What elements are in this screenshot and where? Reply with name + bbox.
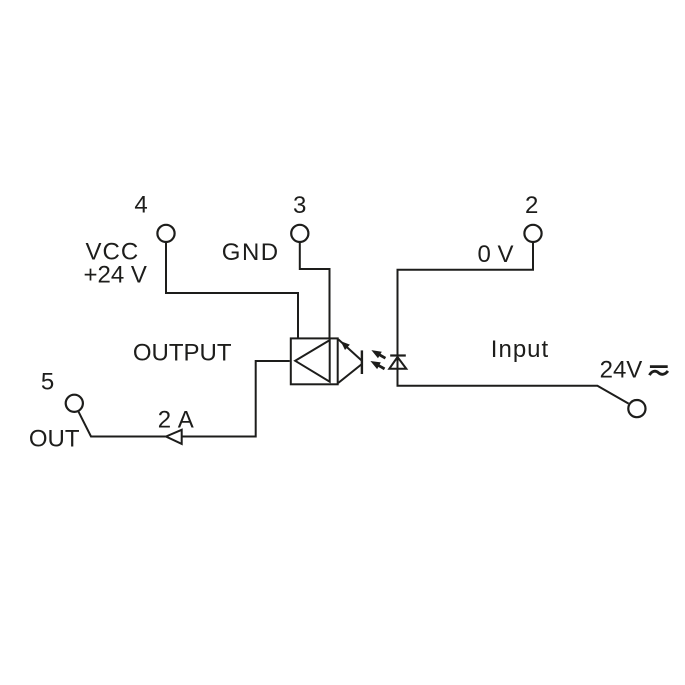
svg-text:OUTPUT: OUTPUT [133, 339, 232, 366]
svg-text:4: 4 [134, 192, 147, 219]
svg-text:2 A: 2 A [158, 407, 195, 434]
svg-text:+24 V: +24 V [84, 262, 147, 289]
svg-text:GND: GND [222, 239, 280, 266]
svg-text:0 V: 0 V [478, 241, 514, 268]
svg-text:Input: Input [491, 336, 549, 363]
svg-text:OUT: OUT [29, 425, 80, 452]
svg-text:24V: 24V [600, 357, 643, 384]
svg-text:5: 5 [41, 368, 54, 395]
svg-text:3: 3 [293, 192, 306, 219]
svg-text:2: 2 [525, 192, 538, 219]
